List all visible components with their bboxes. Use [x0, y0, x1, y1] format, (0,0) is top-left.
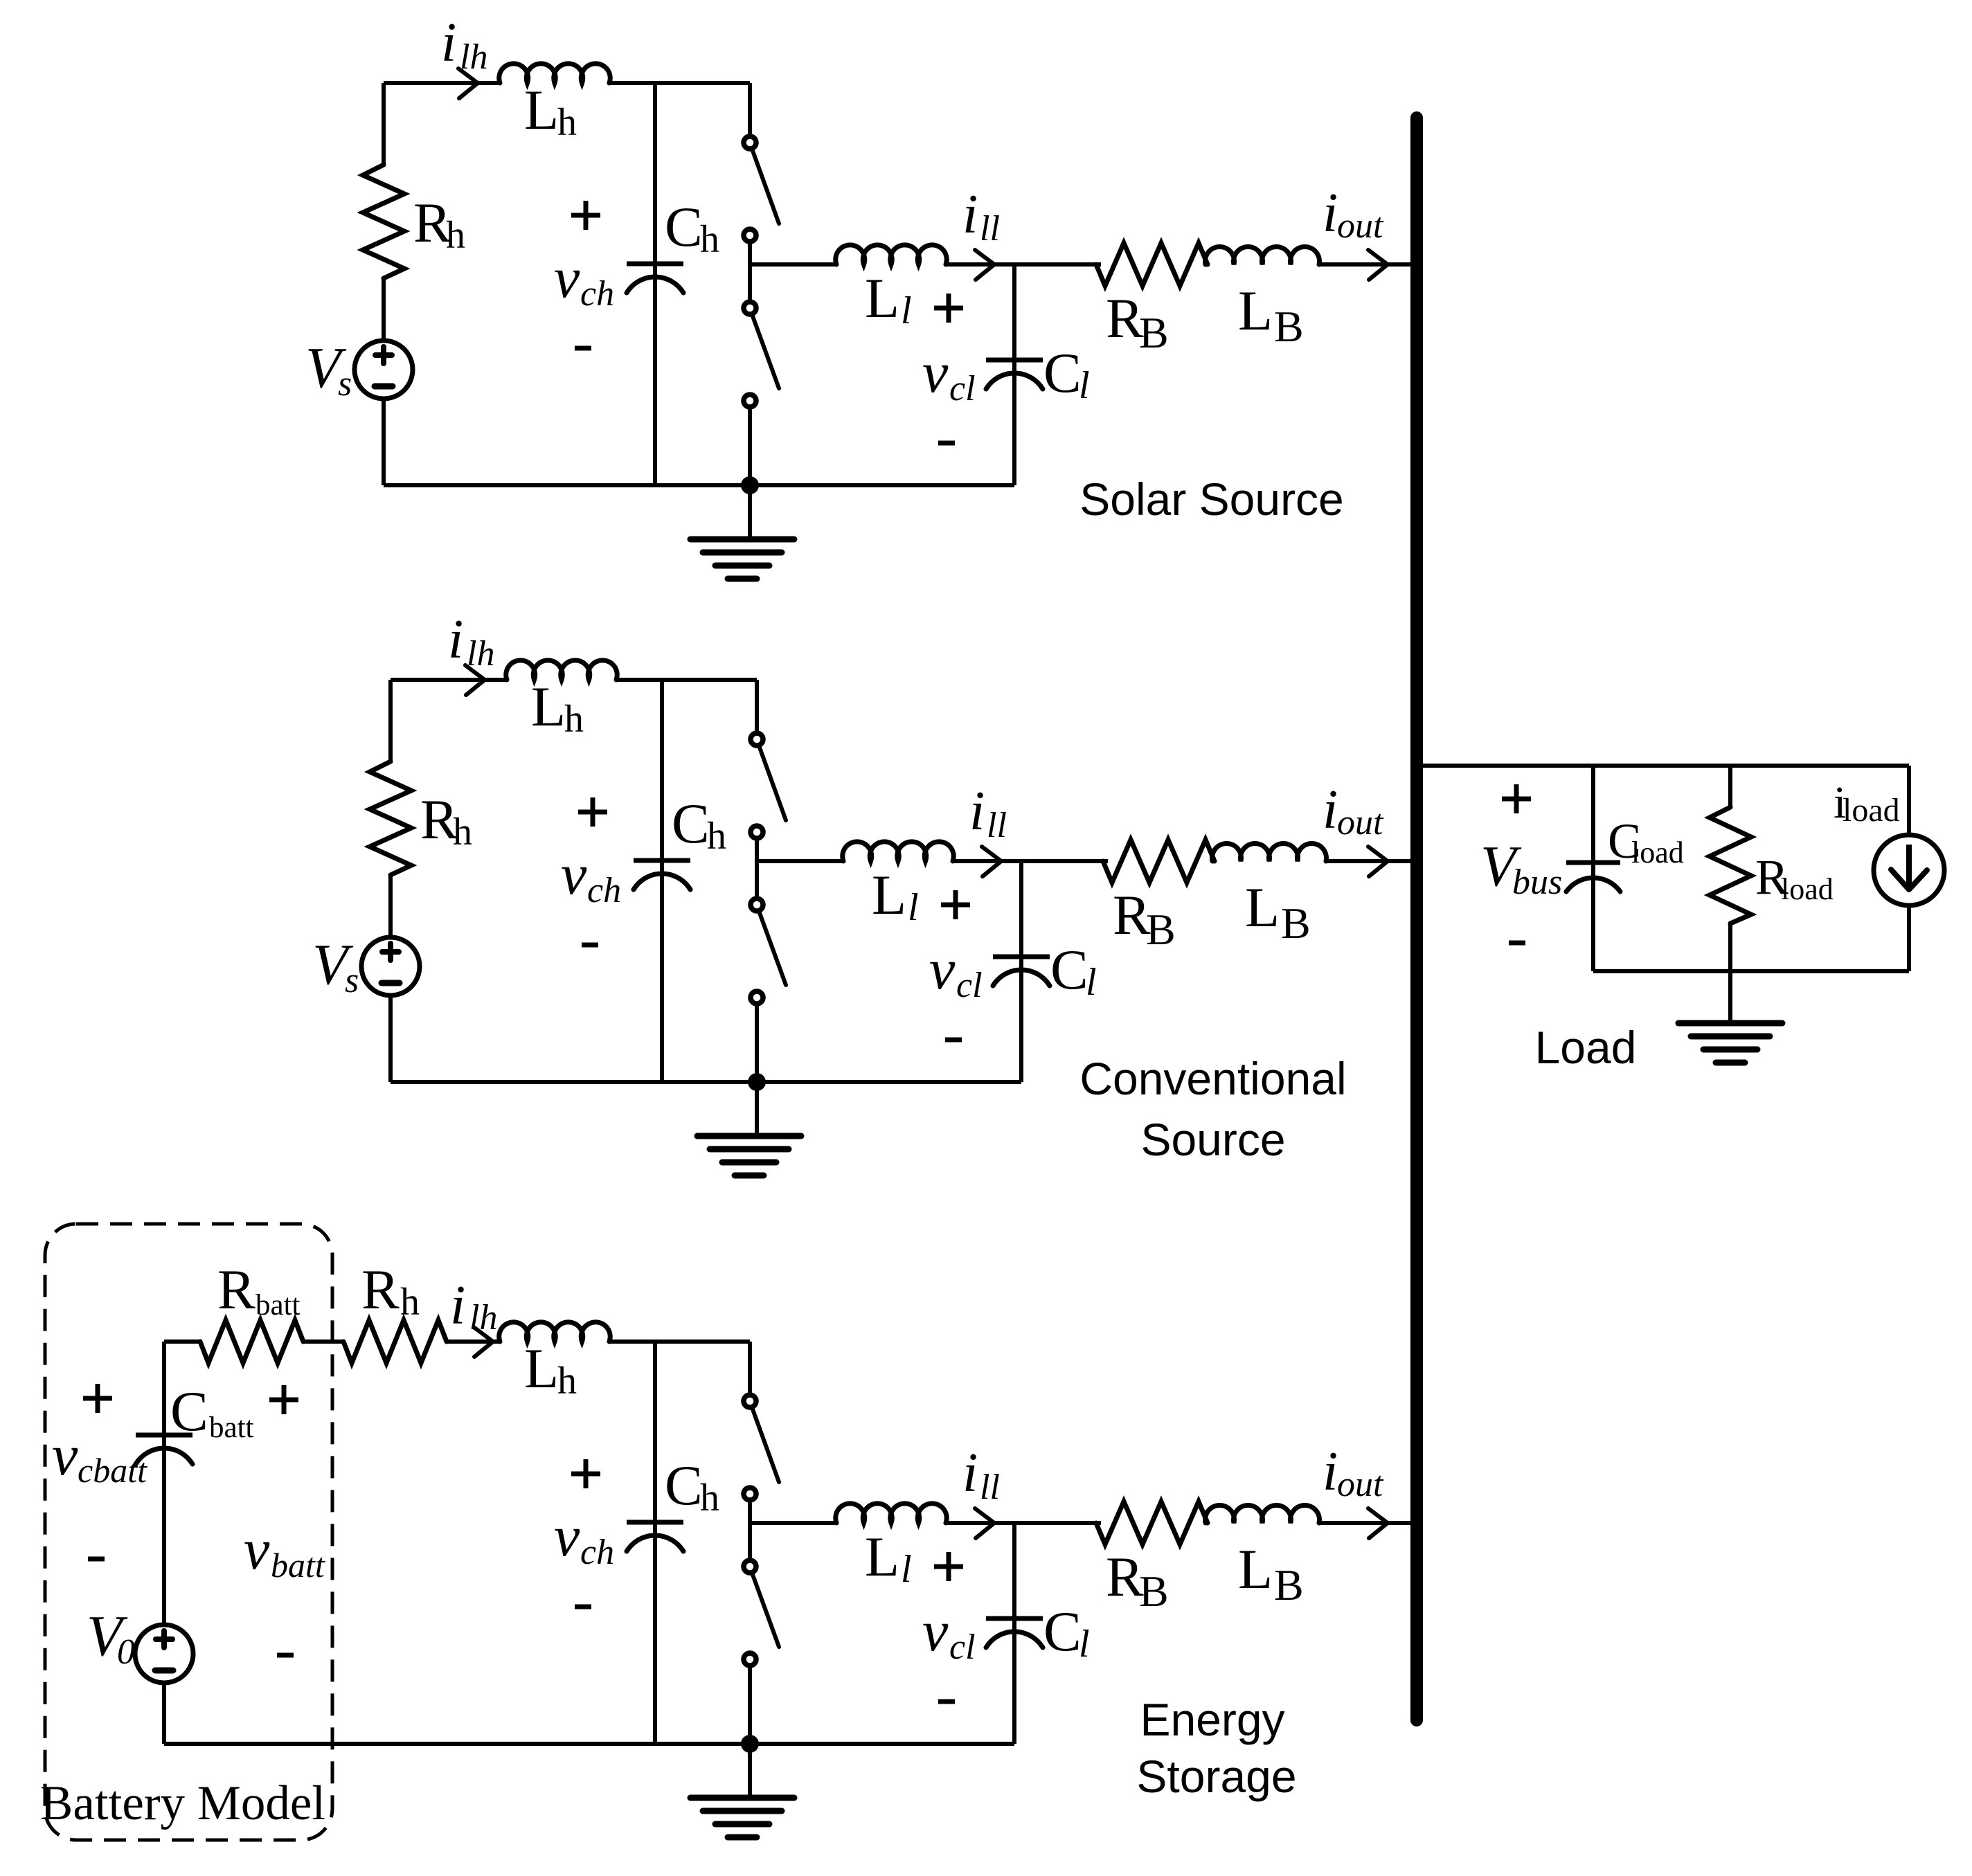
capacitor C_h (conventional)	[660, 680, 664, 1082]
svg-text:lh: lh	[467, 634, 494, 674]
svg-text:out: out	[1337, 206, 1384, 246]
inductor L_B (conventional)	[1212, 843, 1327, 861]
switch S2 terminal (solar)	[744, 229, 756, 242]
inductor L_B (solar)	[1205, 246, 1320, 264]
svg-text:C: C	[1043, 341, 1082, 404]
svg-text:i: i	[962, 1443, 978, 1504]
svg-text:l: l	[1086, 961, 1097, 1004]
arrow i_ll (energy)	[975, 1508, 994, 1538]
inductor L_l (conventional)	[843, 842, 954, 861]
switch S4 terminal (solar)	[744, 395, 756, 407]
svg-text:i: i	[450, 1275, 465, 1336]
svg-text:lh: lh	[460, 37, 487, 77]
svg-text:batt: batt	[256, 1289, 301, 1322]
svg-text:h: h	[564, 698, 584, 741]
svg-text:ch: ch	[580, 1533, 614, 1572]
svg-text:C: C	[170, 1380, 208, 1443]
wire L_h to switch (solar)	[609, 81, 750, 85]
svg-text:cl: cl	[949, 369, 976, 408]
wire ground stem (solar)	[748, 485, 752, 539]
svg-text:0: 0	[117, 1632, 135, 1672]
switch S3 terminal (solar)	[744, 302, 756, 314]
wire switch stem top (solar)	[748, 83, 752, 136]
svg-text:C: C	[1043, 1600, 1082, 1663]
wire bottom rail (conventional)	[391, 1080, 1021, 1084]
svg-text:i: i	[1323, 779, 1338, 840]
wire switch mid stem (energy)	[748, 1501, 752, 1560]
wire switch mid stem (solar)	[748, 242, 752, 301]
svg-text:i: i	[441, 12, 456, 73]
svg-text:L: L	[865, 267, 899, 330]
wire C_l to R_B (conventional)	[1021, 859, 1108, 863]
svg-text:L: L	[524, 1337, 559, 1400]
svg-text:h: h	[557, 101, 577, 144]
svg-text:i: i	[962, 184, 978, 245]
wire L_l to C_l (energy)	[946, 1521, 1014, 1525]
arrow i_lh (conventional)	[465, 665, 485, 695]
svg-text:batt: batt	[209, 1411, 254, 1444]
svg-text:Energy: Energy	[1140, 1694, 1284, 1745]
wire left rail upper (solar)	[382, 83, 386, 165]
svg-text:v: v	[561, 842, 587, 907]
wire rail lower (solar)	[382, 398, 386, 485]
arrow i_ll (conventional)	[982, 847, 1001, 876]
label + v_batt	[269, 1398, 298, 1403]
wire load bottom	[1593, 969, 1909, 973]
wire top rail (solar)	[384, 81, 500, 85]
resistor R_batt	[200, 1320, 303, 1363]
label + v_ch (solar)	[571, 213, 600, 218]
wire L_l to C_l (solar)	[946, 262, 1014, 267]
wire L_B to bus (energy)	[1319, 1521, 1417, 1525]
svg-text:Solar Source: Solar Source	[1079, 473, 1344, 525]
svg-text:Conventional: Conventional	[1079, 1053, 1346, 1104]
ground (conventional)	[697, 1133, 801, 1139]
svg-text:bus: bus	[1512, 863, 1562, 902]
wire ground stem (energy)	[748, 1744, 752, 1798]
svg-text:h: h	[400, 1281, 420, 1324]
svg-text:v: v	[52, 1423, 78, 1488]
svg-text:L: L	[531, 675, 566, 738]
wire battery top jog	[164, 1340, 200, 1344]
wire switch stem bottom (energy)	[748, 1666, 752, 1744]
switch S2 terminal (conventional)	[751, 826, 763, 838]
svg-text:batt: batt	[271, 1546, 325, 1585]
capacitor C_l (conventional)	[1019, 861, 1023, 1082]
svg-text:i: i	[1323, 1441, 1338, 1502]
wire C_l to R_B (solar)	[1014, 262, 1101, 267]
svg-text:out: out	[1337, 803, 1384, 842]
wire top rail (conventional)	[391, 678, 507, 682]
wire L_h to switch (conventional)	[616, 678, 757, 682]
wire bottom rail (energy)	[164, 1742, 1014, 1746]
label - V_bus	[1509, 941, 1525, 946]
label - v_batt	[277, 1653, 294, 1658]
wire rail lower (conventional)	[388, 995, 393, 1082]
wire L_B to bus (solar)	[1319, 262, 1417, 267]
ground (solar)	[690, 536, 794, 543]
svg-text:L: L	[1245, 876, 1280, 939]
svg-text:ch: ch	[587, 871, 621, 910]
svg-text:C: C	[665, 1454, 703, 1517]
capacitor C_l (energy)	[1012, 1523, 1016, 1744]
wire switch stem bottom (solar)	[748, 408, 752, 485]
label + V_bus	[1502, 797, 1531, 802]
label + v_ch (energy)	[571, 1472, 600, 1477]
svg-text:v: v	[554, 1504, 580, 1569]
svg-text:Storage: Storage	[1136, 1751, 1296, 1802]
switch S1 blade (solar)	[752, 149, 779, 224]
arrow i_out (energy)	[1368, 1508, 1388, 1538]
svg-text:l: l	[1079, 1623, 1090, 1666]
svg-text:L: L	[1238, 279, 1273, 342]
inductor L_h (conventional)	[506, 660, 618, 680]
svg-text:R: R	[1106, 1545, 1144, 1608]
svg-text:v: v	[929, 937, 956, 1002]
inductor L_h (solar)	[499, 64, 611, 83]
wire mid row left (conventional)	[757, 859, 843, 863]
svg-text:cl: cl	[956, 966, 983, 1005]
inductor L_B (energy)	[1205, 1505, 1320, 1523]
inductor L_l (solar)	[836, 245, 947, 264]
svg-text:out: out	[1337, 1465, 1384, 1504]
label - v_cl (energy)	[938, 1699, 955, 1704]
svg-text:C: C	[665, 195, 703, 258]
svg-text:h: h	[446, 214, 465, 257]
resistor R_B (solar)	[1096, 243, 1208, 286]
svg-text:h: h	[700, 1477, 719, 1519]
svg-text:R: R	[361, 1258, 400, 1321]
svg-text:Battery Model: Battery Model	[40, 1776, 325, 1830]
switch S2 blade (energy)	[752, 1573, 779, 1647]
bus (DC bus bar)	[1410, 118, 1423, 1720]
resistor R_load	[1728, 766, 1732, 807]
arrow i_out (solar)	[1368, 250, 1388, 280]
capacitor C_batt	[162, 1342, 166, 1625]
svg-text:v: v	[922, 1599, 949, 1663]
wire bottom rail (solar)	[384, 483, 1014, 487]
svg-text:i: i	[448, 609, 463, 670]
wire ground stem (conventional)	[755, 1082, 759, 1136]
svg-text:s: s	[338, 364, 352, 404]
label + v_ch (conventional)	[578, 810, 607, 815]
resistor R_B (conventional)	[1103, 840, 1214, 883]
wire rail mid (conventional)	[388, 874, 393, 938]
wire left rail upper (conventional)	[388, 680, 393, 761]
svg-text:load: load	[1781, 872, 1834, 906]
wire R_h to L_h (energy)	[447, 1340, 500, 1344]
svg-text:l: l	[901, 289, 912, 332]
wire switch mid stem (conventional)	[755, 839, 759, 898]
svg-text:C: C	[672, 792, 710, 855]
arrow i_lh (solar)	[458, 69, 478, 98]
switch S1 terminal (solar)	[744, 136, 756, 149]
svg-text:load: load	[1631, 836, 1684, 869]
svg-text:v: v	[244, 1517, 270, 1582]
svg-text:B: B	[1281, 899, 1311, 948]
node ground junction (solar)	[741, 476, 759, 494]
ground (energy)	[690, 1795, 794, 1801]
svg-text:lh: lh	[469, 1298, 497, 1337]
svg-text:l: l	[908, 886, 919, 929]
svg-text:l: l	[901, 1548, 912, 1591]
svg-text:v: v	[554, 246, 580, 310]
arrow i_lh (energy)	[474, 1327, 493, 1357]
resistor R_h (conventional)	[370, 761, 411, 875]
wire switch stem top (conventional)	[755, 680, 759, 732]
svg-text:C: C	[1050, 938, 1088, 1001]
svg-text:L: L	[1238, 1537, 1273, 1600]
capacitor C_l (solar)	[1012, 264, 1016, 485]
svg-text:R: R	[217, 1258, 256, 1321]
inductor L_h (energy)	[499, 1322, 611, 1342]
label + v_cl (conventional)	[941, 903, 970, 908]
wire L_l to C_l (conventional)	[953, 859, 1021, 863]
svg-text:ch: ch	[580, 274, 614, 314]
wire switch stem bottom (conventional)	[755, 1004, 759, 1082]
svg-text:i: i	[1323, 183, 1338, 244]
label - v_cl (solar)	[938, 441, 955, 446]
svg-text:cl: cl	[949, 1627, 976, 1667]
wire switch stem top (energy)	[748, 1342, 752, 1394]
label - v_ch (energy)	[575, 1605, 591, 1609]
resistor R_h (energy)	[343, 1320, 447, 1363]
svg-text:Source: Source	[1140, 1114, 1285, 1165]
label + v_cl (energy)	[934, 1564, 963, 1569]
switch S4 terminal (energy)	[744, 1653, 756, 1666]
battery model dashed box	[45, 1224, 332, 1840]
wire V_0 to bottom rail	[162, 1683, 166, 1744]
svg-text:h: h	[707, 815, 726, 858]
svg-text:R: R	[1106, 287, 1144, 350]
switch S1 terminal (energy)	[744, 1395, 756, 1407]
svg-text:load: load	[1843, 792, 1900, 829]
switch S2 blade (conventional)	[759, 911, 786, 985]
label - v_cbatt	[88, 1557, 105, 1562]
svg-text:B: B	[1139, 308, 1169, 357]
capacitor C_h (energy)	[653, 1342, 657, 1744]
svg-text:h: h	[453, 811, 472, 854]
svg-text:i: i	[969, 781, 985, 842]
svg-text:Load: Load	[1535, 1022, 1637, 1073]
capacitor C_h (solar)	[653, 83, 657, 485]
switch S3 terminal (conventional)	[751, 899, 763, 911]
svg-text:ll: ll	[987, 806, 1007, 845]
svg-text:v: v	[922, 341, 949, 405]
switch S1 blade (energy)	[752, 1407, 779, 1482]
wire C_l to R_B (energy)	[1014, 1521, 1101, 1525]
resistor R_h (solar)	[363, 165, 404, 278]
wire rail mid (solar)	[382, 278, 386, 341]
svg-text:R: R	[1113, 883, 1151, 946]
switch S2 terminal (energy)	[744, 1488, 756, 1500]
svg-text:ll: ll	[980, 209, 1000, 249]
arrow i_out (conventional)	[1368, 847, 1388, 876]
wire mid row left (solar)	[750, 262, 836, 267]
svg-text:s: s	[345, 961, 359, 1000]
svg-text:h: h	[557, 1360, 577, 1403]
svg-text:L: L	[872, 863, 906, 926]
capacitor C_load	[1591, 766, 1595, 971]
svg-text:B: B	[1146, 905, 1176, 954]
label + v_cl (solar)	[934, 306, 963, 311]
switch S4 terminal (conventional)	[751, 991, 763, 1004]
label - v_cl (conventional)	[945, 1038, 962, 1043]
svg-text:ll: ll	[980, 1468, 1000, 1507]
source V_s (solar)	[355, 341, 413, 399]
switch S1 blade (conventional)	[759, 746, 786, 820]
svg-text:l: l	[1079, 364, 1090, 407]
source V_s (conventional)	[361, 937, 420, 995]
wire R_load ground stem	[1728, 971, 1732, 1023]
svg-text:B: B	[1274, 1560, 1304, 1609]
wire mid row left (energy)	[750, 1521, 836, 1525]
switch S1 terminal (conventional)	[751, 733, 763, 746]
svg-text:cbatt: cbatt	[78, 1451, 147, 1490]
svg-text:B: B	[1139, 1567, 1169, 1616]
wire L_h to switch (energy)	[609, 1340, 750, 1344]
svg-text:h: h	[700, 218, 719, 261]
node ground junction (conventional)	[748, 1073, 766, 1091]
arrow i_ll (solar)	[975, 250, 994, 280]
ground (load)	[1678, 1020, 1782, 1027]
wire R_batt to R_h (energy)	[303, 1340, 343, 1344]
source V_0	[135, 1625, 193, 1683]
resistor R_B (energy)	[1096, 1501, 1208, 1544]
svg-text:L: L	[865, 1525, 899, 1588]
svg-text:L: L	[524, 78, 559, 141]
wire L_B to bus (conventional)	[1326, 859, 1417, 863]
label - v_ch (conventional)	[582, 943, 598, 948]
inductor L_l (energy)	[836, 1504, 947, 1523]
label + v_cbatt	[83, 1396, 112, 1401]
svg-text:B: B	[1274, 302, 1304, 351]
switch S3 terminal (energy)	[744, 1560, 756, 1573]
switch S2 blade (solar)	[752, 314, 779, 388]
label - v_ch (solar)	[575, 346, 591, 351]
current source i_load	[1907, 766, 1911, 835]
node ground junction (energy)	[741, 1735, 759, 1753]
wire bus to load top	[1417, 764, 1909, 768]
